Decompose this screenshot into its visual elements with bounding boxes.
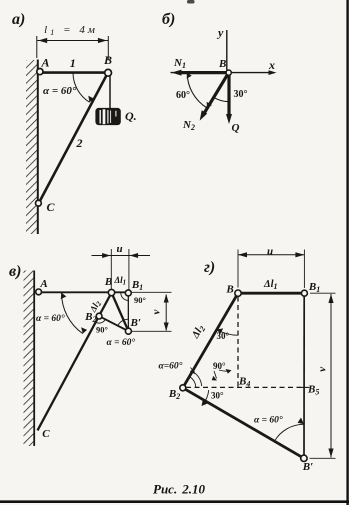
svg-text:u: u [116, 243, 122, 255]
svg-text:2: 2 [76, 136, 83, 150]
svg-text:B′: B′ [130, 317, 141, 329]
svg-text:90°: 90° [96, 325, 108, 335]
svg-text:B: B [218, 58, 226, 70]
svg-text:A: A [39, 278, 47, 290]
svg-text:B: B [103, 53, 112, 67]
svg-text:α=60°: α=60° [159, 361, 183, 372]
svg-text:α = 60°: α = 60° [43, 85, 77, 97]
svg-text:а): а) [12, 11, 25, 28]
svg-text:30°: 30° [234, 89, 248, 100]
svg-text:v: v [151, 309, 163, 314]
svg-text:A: A [40, 56, 49, 70]
svg-text:B: B [225, 284, 233, 296]
svg-text:90°: 90° [213, 361, 226, 371]
svg-text:α = 60°: α = 60° [254, 415, 283, 426]
svg-text:l1 = 4м: l1 = 4м [44, 24, 98, 37]
svg-text:30°: 30° [217, 331, 230, 341]
svg-text:г): г) [204, 259, 215, 276]
svg-text:30°: 30° [211, 391, 224, 401]
svg-text:90°: 90° [134, 295, 146, 305]
svg-text:1: 1 [70, 56, 76, 70]
svg-text:y: y [216, 26, 224, 40]
svg-text:α = 60°: α = 60° [107, 337, 136, 348]
svg-text:60°: 60° [176, 90, 190, 101]
svg-text:B: B [104, 276, 112, 288]
svg-text:C: C [47, 200, 56, 214]
svg-text:б): б) [162, 11, 175, 28]
svg-text:u: u [267, 246, 273, 258]
svg-text:C: C [42, 428, 50, 440]
svg-text:v: v [316, 367, 328, 372]
svg-text:B′: B′ [302, 461, 313, 473]
svg-text:Q: Q [232, 122, 240, 134]
svg-text:в): в) [9, 263, 21, 280]
svg-text:x: x [268, 58, 275, 72]
svg-text:α = 60°: α = 60° [36, 313, 65, 324]
svg-text:Q.: Q. [125, 109, 137, 123]
